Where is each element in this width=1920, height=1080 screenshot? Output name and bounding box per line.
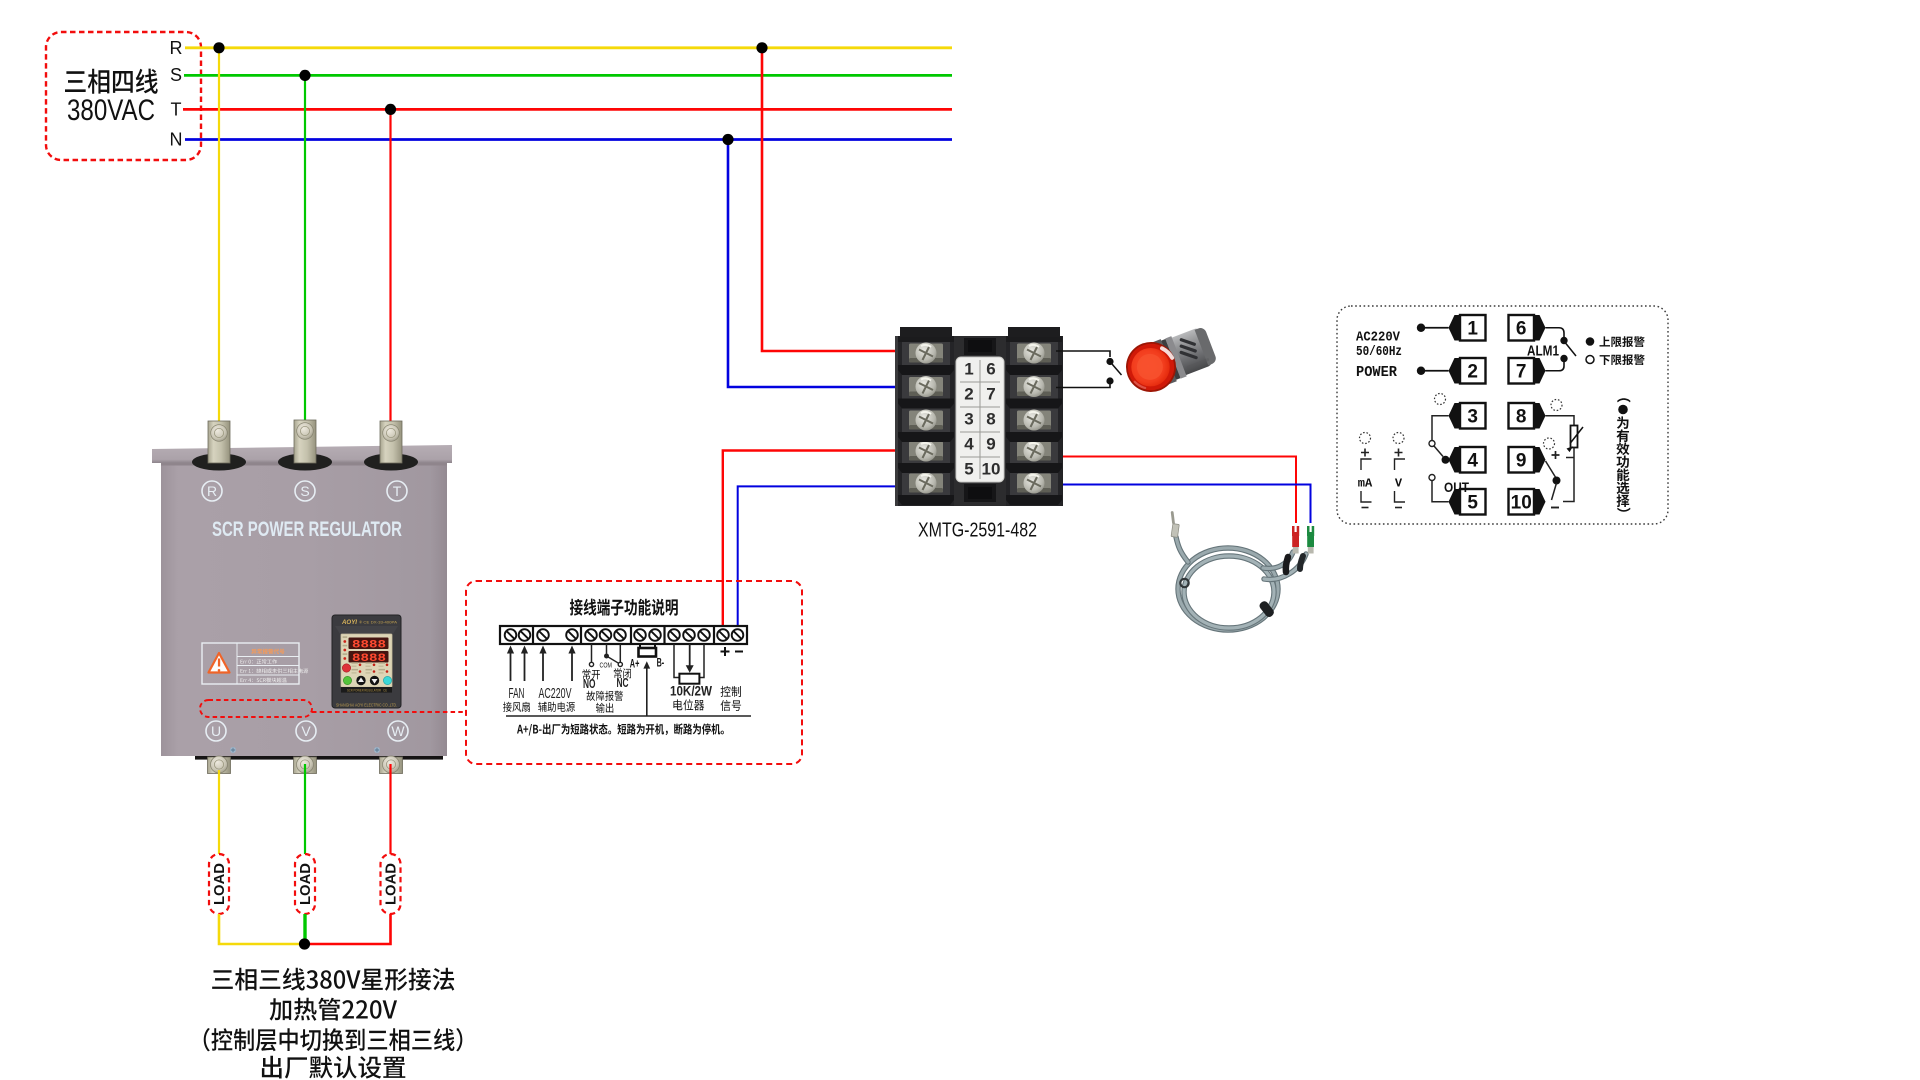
svg-text:POWER: POWER — [1356, 365, 1397, 381]
control signal polarity — [721, 647, 730, 656]
svg-text:4: 4 — [1467, 451, 1478, 472]
junction R-feed — [213, 42, 224, 53]
pin1 supply lead — [1424, 327, 1449, 329]
wire V to load (green) — [304, 764, 306, 855]
svg-text:NO: NO — [583, 677, 596, 691]
strip screw 4 — [566, 629, 578, 641]
junction R to controller supply — [756, 42, 767, 53]
warning triangle — [209, 653, 230, 673]
strip screw 11 — [683, 629, 695, 641]
label 故障报警输出 — [587, 691, 624, 701]
strip screw 14 — [732, 629, 744, 641]
V output option — [1393, 433, 1404, 444]
thermocouple tip — [1171, 524, 1179, 538]
wire R feed to SCR input (yellow vertical) — [218, 48, 220, 430]
svg-text:SCR POWER REGULATOR: SCR POWER REGULATOR — [212, 518, 402, 541]
wire S bus (green) — [184, 74, 952, 77]
legend high alarm — [1586, 337, 1595, 346]
controller terminal column R — [1006, 336, 1062, 506]
arrow to terminal — [571, 652, 573, 682]
SCR phase mark V — [296, 721, 316, 741]
strip screw 3 — [537, 629, 549, 641]
junction T-feed — [385, 104, 396, 115]
SCR input port T — [364, 454, 418, 471]
pin square 1 — [1460, 315, 1486, 341]
load element — [381, 854, 401, 914]
svg-text:3: 3 — [964, 410, 973, 429]
terminal function box — [466, 581, 802, 764]
spade lug + (red) — [1292, 526, 1299, 536]
alarm contact lever — [1112, 364, 1122, 375]
strip screw 6 — [600, 629, 612, 641]
panel display upper — [349, 638, 389, 650]
controller terminal L4 — [902, 439, 950, 463]
dashed connector line to terminal box — [312, 711, 466, 713]
wire R bus (yellow) — [185, 46, 952, 49]
SCR phase mark W — [388, 721, 408, 741]
wire controller power L (red drop to pin1) — [762, 48, 901, 351]
wire T bus (red) — [183, 108, 952, 111]
controller terminal L1 — [902, 341, 950, 365]
pin square 5 — [1460, 489, 1486, 515]
sensor polarity + — [1552, 451, 1560, 459]
arrow to A+/B- — [646, 667, 648, 716]
pin square 10 — [1509, 489, 1535, 515]
controller terminal R5 — [1010, 471, 1058, 495]
A+/B- shorting link — [639, 644, 641, 648]
controller terminal R2 — [1010, 375, 1058, 399]
svg-text:6: 6 — [1516, 319, 1527, 340]
external rheostat — [1551, 400, 1562, 411]
caption line4 — [262, 1056, 405, 1079]
heat shrink black — [1286, 557, 1288, 572]
svg-text:mA: mA — [1358, 477, 1373, 491]
SCR top flange — [152, 445, 452, 463]
pin square 6 — [1509, 315, 1535, 341]
svg-text:XMTG-2591-482: XMTG-2591-482 — [918, 519, 1037, 542]
wire load V to star point — [303, 914, 306, 944]
wire W to load (red) — [389, 764, 391, 855]
caption line2 — [270, 998, 397, 1021]
AOYI control panel — [332, 615, 401, 708]
svg-text:R: R — [170, 38, 183, 58]
controller bottom notch — [964, 484, 996, 502]
pin square 4 — [1460, 447, 1486, 473]
svg-text:LOAD: LOAD — [384, 863, 400, 905]
SCR output terminal lug V — [294, 757, 317, 774]
controller center label — [956, 357, 1004, 482]
wire control signal - (blue, controller pin5 to strip) — [738, 486, 916, 630]
svg-text:N: N — [170, 130, 183, 150]
svg-text:W: W — [391, 723, 405, 739]
strip screw 10 — [668, 629, 680, 641]
svg-text:6: 6 — [986, 360, 995, 379]
label 常闭 NC — [614, 668, 631, 678]
star junction — [299, 938, 310, 949]
terminal strip — [500, 626, 747, 644]
pin square 8 — [1509, 403, 1535, 429]
SCR phase mark S — [295, 481, 315, 501]
svg-text:10: 10 — [982, 460, 1001, 479]
svg-text:AOYI: AOYI — [341, 619, 357, 626]
temperature controller XMTG rear view — [895, 336, 1063, 506]
wire N bus (blue) — [185, 138, 952, 141]
note text — [517, 723, 724, 735]
wire lamp from pin6 — [1056, 351, 1110, 357]
pin square 7 — [1509, 358, 1535, 384]
controller terminal R3 — [1010, 408, 1058, 432]
svg-text:LOAD: LOAD — [212, 863, 228, 905]
alarm contact bottom — [1106, 377, 1113, 384]
svg-text:8888: 8888 — [352, 640, 387, 652]
legend vertical note — [1617, 398, 1630, 402]
strip screw 13 — [717, 629, 729, 641]
label 电位器 — [673, 699, 704, 710]
strip screw 8 — [634, 629, 646, 641]
strip screw 9 — [649, 629, 661, 641]
svg-text:8: 8 — [986, 410, 995, 429]
relay contact COM — [606, 644, 608, 654]
separator rule — [506, 715, 751, 717]
strip screw 7 — [614, 629, 626, 641]
SCR phase mark R — [202, 481, 222, 501]
ALM1 contact — [1546, 328, 1565, 337]
alarm contact top — [1106, 358, 1113, 365]
sensor polarity - — [1551, 507, 1559, 509]
junction S-feed — [299, 70, 310, 81]
SCR chassis screw left — [230, 747, 236, 753]
panel indicator rows — [359, 664, 362, 667]
load element — [295, 854, 315, 914]
wire U to load (yellow) — [218, 770, 220, 855]
caption line1 — [212, 968, 454, 991]
panel buttons — [343, 676, 351, 684]
wire load U to star point — [219, 914, 301, 944]
pin2 supply lead — [1424, 370, 1449, 372]
dashed highlight pill on SCR bottom strip — [200, 700, 312, 717]
red pilot lamp — [1119, 321, 1220, 400]
wire thermocouple + (red, controller pin9) — [1040, 457, 1296, 524]
SCR chassis screw right — [374, 747, 380, 753]
wire T feed to SCR input (red vertical) — [389, 109, 391, 430]
controller terminal column L — [898, 336, 954, 506]
SCR input port S — [278, 454, 332, 471]
mA output option — [1360, 433, 1371, 444]
svg-text:V: V — [1395, 477, 1403, 491]
wire thermocouple - (blue, controller pin10) — [1040, 485, 1311, 524]
thermocouple clip — [1180, 579, 1188, 587]
SCR input terminal lug T — [380, 421, 402, 463]
controller terminal barriers R — [1006, 365, 1062, 375]
svg-text:7: 7 — [986, 385, 995, 404]
relay contact NO — [591, 644, 593, 662]
legend low alarm — [1586, 356, 1594, 364]
controller terminal L2 — [902, 375, 950, 399]
svg-text:3: 3 — [1467, 407, 1478, 428]
controller top notch — [964, 338, 996, 355]
svg-text:7: 7 — [1516, 362, 1527, 383]
strip screw 2 — [519, 629, 531, 641]
junction N to controller supply — [722, 134, 733, 145]
svg-text:5: 5 — [964, 460, 973, 479]
sensor input link — [1546, 461, 1557, 478]
svg-text:U: U — [211, 723, 221, 739]
strip screw 1 — [505, 629, 517, 641]
svg-text:10: 10 — [1511, 493, 1532, 514]
svg-text:OUT: OUT — [1444, 479, 1469, 495]
wire controller power N (blue drop to pin2) — [728, 140, 901, 388]
wire load W to star point — [308, 914, 391, 944]
arrow to terminal — [510, 652, 512, 682]
svg-text:AC220V: AC220V — [539, 685, 572, 702]
arrow to terminal — [524, 652, 526, 682]
svg-text:1: 1 — [964, 360, 973, 379]
panel red button — [342, 664, 350, 672]
svg-text:1: 1 — [1467, 319, 1478, 340]
wire control signal + (red, controller pin4 to strip) — [723, 451, 916, 631]
pin square 3 — [1460, 403, 1486, 429]
controller terminal L5 — [902, 471, 950, 495]
cable wrap — [1258, 600, 1276, 619]
svg-text:V: V — [301, 723, 311, 739]
svg-text:T: T — [171, 100, 182, 120]
svg-text:2: 2 — [964, 385, 973, 404]
OUT contact group — [1435, 394, 1446, 405]
SCR output terminal lug U — [208, 757, 231, 774]
svg-text:9: 9 — [1516, 451, 1527, 472]
svg-text:LOAD: LOAD — [298, 863, 314, 905]
SCR input terminal lug S — [294, 420, 316, 463]
controller terminal barriers L — [898, 365, 954, 375]
svg-text:8: 8 — [1516, 407, 1527, 428]
thermocouple probe assembly — [1176, 537, 1306, 630]
svg-text:380VAC: 380VAC — [67, 94, 155, 127]
svg-text:10K/2W: 10K/2W — [670, 683, 713, 699]
pin square 9 — [1509, 447, 1535, 473]
svg-text:T: T — [393, 483, 402, 499]
controller terminal R4 — [1010, 439, 1058, 463]
svg-text:SHANGHAI AOYI ELECTRIC CO.,: SHANGHAI AOYI ELECTRIC CO.,LTD. — [336, 703, 397, 708]
SCR phase mark T — [387, 481, 407, 501]
svg-text:S: S — [300, 483, 309, 499]
svg-text:B-: B- — [657, 656, 665, 670]
svg-text:NC: NC — [617, 676, 629, 690]
label 控制信号 — [721, 686, 741, 697]
source box 三相四线 380VAC — [46, 32, 201, 160]
SCR warning sticker — [202, 643, 299, 684]
load element — [209, 854, 229, 914]
controller terminal R1 — [1010, 341, 1058, 365]
wire lamp to pin7 — [1056, 385, 1110, 388]
SCR input port R — [192, 454, 246, 471]
wire S feed to SCR input (green vertical) — [304, 75, 306, 430]
spade lug - (green) — [1307, 526, 1314, 536]
strip screw 5 — [585, 629, 597, 641]
SCR output terminal lug W — [380, 757, 403, 774]
svg-text:A+: A+ — [630, 657, 640, 671]
svg-text:50/60Hz: 50/60Hz — [1356, 344, 1402, 360]
arrow to terminal — [542, 652, 544, 682]
panel display lower — [349, 651, 389, 663]
svg-text:COM: COM — [600, 661, 613, 670]
strip screw 12 — [698, 629, 710, 641]
svg-text:9: 9 — [986, 435, 995, 454]
svg-text:4: 4 — [964, 435, 974, 454]
pin square 2 — [1460, 358, 1486, 384]
svg-text:ALM1: ALM1 — [1527, 343, 1559, 360]
SCR main body — [161, 463, 447, 756]
box title 接线端子功能说明 — [570, 599, 678, 616]
svg-text:5: 5 — [1467, 493, 1478, 514]
svg-text:FAN: FAN — [509, 685, 525, 702]
relay contact NC — [619, 644, 621, 662]
controller terminal L3 — [902, 408, 950, 432]
svg-text:R: R — [207, 483, 217, 499]
SCR phase mark U — [206, 721, 226, 741]
potentiometer 10K/2W — [674, 644, 680, 678]
SCR input terminal lug R — [208, 421, 230, 463]
label 常开 NO — [583, 669, 600, 679]
caption line3 — [204, 1028, 463, 1051]
svg-text:SCR POWER REGULATOR CE: SCR POWER REGULATOR CE — [347, 687, 387, 692]
svg-text:® CE DX-33-400PA: ® CE DX-33-400PA — [359, 620, 397, 625]
pin function diagram box — [1337, 306, 1668, 524]
svg-text:2: 2 — [1467, 362, 1478, 383]
svg-text:S: S — [170, 65, 182, 85]
